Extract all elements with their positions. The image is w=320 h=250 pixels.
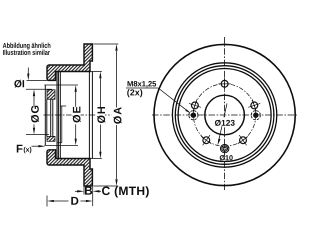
label diameter E (rotated) bbox=[73, 107, 81, 123]
bolt hole upper-left bbox=[189, 99, 201, 111]
label diameter H (rotated) bbox=[97, 107, 105, 123]
label D bbox=[71, 197, 78, 205]
centerline left view bbox=[44, 114, 112, 116]
label diameter 10 bbox=[220, 155, 233, 160]
note line 1 bbox=[3, 43, 51, 50]
label diameter A (rotated) bbox=[113, 107, 121, 124]
label (x) bbox=[24, 147, 32, 153]
vertical centerline right view bbox=[224, 37, 226, 190]
section friction ring top (hatched) bbox=[47, 44, 92, 80]
section friction ring bottom (hatched) bbox=[47, 150, 92, 186]
friction band rings bbox=[172, 63, 276, 167]
white backing for rotated labels bbox=[30, 107, 122, 125]
dimension diameter H extension lines bbox=[89, 72, 102, 159]
label M8x1,25 bbox=[128, 81, 157, 88]
threaded hole M8 left bbox=[189, 111, 198, 120]
dimension diameter 123 leader bbox=[218, 104, 227, 143]
hub circle bbox=[205, 95, 245, 135]
dimension diameter A extension lines bbox=[94, 44, 119, 186]
bolt hole top bbox=[218, 78, 230, 90]
dimension D bbox=[47, 200, 93, 202]
drum inner step lines bbox=[57, 72, 60, 159]
label C (MTH) bbox=[102, 186, 149, 197]
label diameter G (rotated) bbox=[31, 106, 39, 123]
note line 2 bbox=[3, 50, 50, 55]
dimension diameter G bbox=[26, 89, 52, 134]
hub flange block bottom (hatched) bbox=[47, 136, 55, 141]
dimension diameter I bbox=[27, 68, 56, 81]
label M8x1,25 (2x) with leader bbox=[126, 88, 191, 113]
label F bbox=[17, 145, 23, 153]
bolt hole upper-right bbox=[248, 99, 260, 111]
label diameter 123 bbox=[214, 117, 236, 126]
dimension diameter A bbox=[115, 44, 117, 186]
label diameter I bbox=[14, 80, 24, 88]
hat mounting plate bbox=[89, 72, 92, 159]
dimension C (MTH) bbox=[93, 190, 101, 192]
label diameter 123 bbox=[215, 120, 235, 126]
dimension B extension lines bbox=[84, 187, 93, 206]
bolt hole lower-left bbox=[201, 135, 211, 145]
horizontal centerline right view bbox=[152, 114, 297, 116]
dimension diameter E bbox=[75, 85, 77, 145]
hub flange top edge line bbox=[44, 84, 78, 86]
label (2x) bbox=[127, 89, 142, 97]
label F(x) with leader bbox=[32, 145, 46, 147]
disc outer circle bbox=[154, 44, 295, 185]
threaded hole M8 right bbox=[251, 111, 260, 120]
bolt circle (dash-dot) bbox=[193, 84, 255, 146]
hub flange face line bbox=[44, 85, 46, 146]
dimension B bbox=[75, 190, 84, 192]
hub cap lines bbox=[57, 106, 66, 143]
dimension D extension line bbox=[46, 196, 48, 207]
dimension diameter H bbox=[99, 72, 101, 159]
hub bore lines bbox=[47, 99, 53, 136]
label B bbox=[85, 186, 92, 194]
bolt hole lower-right bbox=[238, 135, 248, 145]
hub flange bottom edge line bbox=[44, 144, 78, 146]
hub flange block top (hatched) bbox=[47, 90, 55, 99]
pin hole diameter 10 bbox=[221, 144, 229, 152]
